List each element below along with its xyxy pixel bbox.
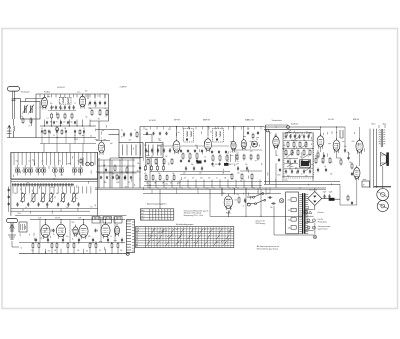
svg-text:1k: 1k (110, 236, 112, 238)
wire (344, 127, 346, 148)
jack J2 (287, 126, 290, 129)
resistor Rb5 (73, 242, 75, 249)
wire drop (260, 127, 262, 130)
capacitor in T2 (186, 138, 188, 141)
resistor R7 (91, 109, 93, 116)
rail (11, 208, 98, 210)
trimmer T7 (59, 165, 64, 176)
capacitor Cb6 (121, 238, 123, 243)
resistor Ri1 (322, 157, 324, 164)
capacitor Cy5 (218, 162, 220, 165)
capacitor Ct2 (194, 149, 196, 153)
rail (284, 140, 313, 142)
svg-text:25n: 25n (245, 164, 248, 166)
capacitor Cy1 (188, 159, 190, 162)
wire (155, 180, 157, 189)
main ground bus (95, 187, 326, 189)
wire (339, 184, 341, 205)
wire (99, 94, 101, 98)
wire (36, 137, 96, 139)
resistor Rt3 (257, 154, 259, 161)
coil box LB (19, 222, 27, 232)
resistor R11a (114, 164, 116, 171)
wire (235, 154, 237, 162)
wire (342, 130, 344, 138)
IF transformer T2 (184, 129, 194, 143)
wire (273, 206, 275, 235)
svg-text:3n: 3n (168, 129, 170, 131)
output transformer T4 (379, 125, 385, 147)
module box (103, 217, 112, 224)
tube (273, 134, 279, 149)
wire (73, 249, 75, 254)
wire drop (169, 127, 171, 130)
capacitor Cr1 (351, 201, 353, 205)
svg-text:100: 100 (270, 207, 273, 209)
wire (117, 249, 119, 254)
wire (382, 166, 384, 189)
svg-text:25n: 25n (55, 127, 57, 129)
wire (336, 151, 338, 158)
resistor Re1 (219, 154, 221, 161)
capacitor Cf1 (291, 169, 293, 174)
wire (287, 133, 289, 137)
tube (173, 139, 180, 155)
resistor Rb9 (117, 242, 119, 249)
wire (320, 127, 322, 136)
coil (215, 131, 218, 136)
wire (87, 94, 89, 99)
resistor Rb4 (67, 242, 69, 249)
wire (25, 98, 44, 100)
svg-text:Ua V: Ua V (141, 213, 144, 215)
wire (219, 180, 221, 189)
capacitor Ce3 (298, 134, 300, 139)
resistor Rx0 (44, 129, 46, 135)
wire (98, 158, 100, 188)
rail (96, 171, 140, 173)
capacitor Cx4 (74, 130, 76, 134)
svg-text:10k: 10k (137, 163, 140, 165)
resistor R48 (238, 196, 240, 203)
wire (105, 249, 107, 254)
wire (187, 180, 189, 189)
svg-text:70p: 70p (347, 152, 349, 154)
wire (110, 157, 140, 159)
capacitor C4 (55, 105, 57, 110)
resistor Rt2 (250, 154, 252, 161)
ratio det box (228, 152, 238, 164)
svg-text:gegen Chassis: gegen Chassis (318, 229, 328, 231)
capacitor Cm4 (124, 176, 126, 180)
capacitor Cb0 (35, 238, 37, 243)
resistor R5 (64, 113, 66, 120)
wire (335, 198, 341, 200)
AF cluster dashed box (284, 133, 314, 178)
wire (82, 120, 84, 127)
wire (147, 180, 149, 189)
wire (207, 127, 209, 137)
wire (7, 137, 36, 139)
svg-text:5n: 5n (216, 178, 218, 180)
svg-text:Heizwicklung: Heizwicklung (318, 221, 327, 223)
wire (359, 152, 361, 166)
svg-text:50: 50 (53, 234, 55, 236)
resistor Rb0 (32, 242, 34, 249)
resistor Rc0 (147, 158, 149, 165)
svg-text:25n: 25n (120, 250, 123, 252)
variable capacitor C1 (23, 105, 29, 114)
svg-text:100: 100 (349, 162, 352, 164)
wire drop (215, 127, 217, 130)
potentiometer block (300, 160, 311, 167)
resistor Rw1 (252, 133, 254, 140)
capacitor Cd0 (185, 166, 187, 171)
tube (205, 137, 212, 153)
resistor Rd0 (182, 152, 184, 159)
wire (89, 249, 91, 254)
rectifier bridge GR1 (308, 192, 322, 206)
tube (317, 134, 324, 149)
resistor Ry2 (159, 174, 161, 181)
capacitor Cl2 (8, 202, 10, 206)
svg-text:Spannungsangaben: Spannungsangaben (147, 204, 167, 206)
svg-text:B250 C100: B250 C100 (309, 190, 317, 192)
resistor Rh0 (285, 149, 287, 156)
wire (62, 242, 64, 244)
osc box 1 (119, 143, 143, 158)
rail (264, 180, 340, 182)
svg-text:Teleskopant.: Teleskopant. (21, 91, 31, 94)
secondary wire (306, 209, 314, 211)
svg-text:EABC 80: EABC 80 (245, 119, 254, 122)
svg-text:3n: 3n (156, 163, 158, 165)
wire (340, 137, 343, 139)
wire (233, 127, 235, 140)
wire (221, 189, 223, 193)
wire (245, 188, 247, 198)
rail extension (98, 215, 127, 217)
svg-text:220: 220 (250, 151, 252, 153)
node K (56, 128, 59, 131)
wire (105, 220, 107, 224)
coil (190, 131, 193, 136)
wire (227, 211, 229, 216)
svg-text:50: 50 (256, 139, 258, 141)
wire (74, 134, 76, 144)
secondary wire (306, 230, 314, 232)
wire (98, 159, 135, 161)
capacitor Cc3 (163, 148, 165, 153)
tube (79, 94, 85, 109)
wire (59, 120, 61, 127)
wire (314, 223, 316, 236)
svg-text:100: 100 (295, 141, 297, 143)
wire (47, 242, 49, 244)
svg-text:2k2: 2k2 (158, 173, 161, 175)
resistor Rc2 (163, 158, 165, 165)
node ring (247, 203, 250, 206)
coil (219, 131, 222, 136)
wire (230, 154, 232, 162)
capacitor C53 (268, 196, 273, 198)
voltage table (140, 204, 174, 221)
rail (48, 110, 76, 112)
svg-text:220: 220 (288, 200, 291, 202)
rail (284, 168, 313, 170)
choke solid (329, 198, 335, 201)
resistor Rb6 (89, 242, 91, 249)
resistor Rf2 (251, 173, 253, 180)
rail (284, 148, 313, 150)
wire (171, 180, 173, 189)
trimmer T5 (41, 165, 46, 176)
capacitor C7 (68, 105, 70, 110)
wire (98, 165, 135, 167)
svg-text:10k: 10k (59, 161, 62, 163)
svg-text:70p: 70p (16, 161, 19, 163)
wire drop (241, 127, 243, 130)
wire (96, 129, 119, 131)
svg-text:25n: 25n (293, 149, 296, 151)
wire (260, 189, 262, 216)
resistor Rg2 (299, 141, 301, 148)
resistor R6 (71, 113, 73, 120)
pot arrow (305, 167, 311, 171)
adjustable coil L5 (49, 192, 55, 203)
wire (32, 249, 34, 254)
wire (209, 199, 211, 216)
svg-text:8µF: 8µF (110, 143, 113, 145)
jack J1 (266, 129, 269, 132)
power transformer T5 (299, 193, 308, 234)
svg-text:0,3: 0,3 (184, 178, 186, 180)
tube (41, 95, 47, 109)
svg-text:10k: 10k (112, 174, 115, 176)
capacitor Cc4 (169, 148, 171, 153)
rail (150, 171, 230, 173)
secondary wire (306, 222, 314, 224)
trimmer T1 (15, 165, 20, 176)
capacitor Cf2 (297, 169, 299, 174)
svg-text:V: V (313, 228, 314, 230)
svg-text:0,3: 0,3 (146, 183, 148, 185)
svg-text:EF 89: EF 89 (174, 120, 180, 122)
wire (179, 180, 181, 189)
wire (13, 131, 15, 138)
wire (356, 184, 358, 205)
wire (41, 134, 43, 144)
long vertical wire (373, 129, 375, 188)
svg-text:3n: 3n (331, 162, 333, 164)
svg-text:10k: 10k (149, 185, 151, 187)
svg-text:0,1: 0,1 (47, 118, 49, 120)
wire (149, 158, 151, 189)
wire drop (195, 127, 197, 130)
rail (88, 107, 108, 109)
wire (12, 246, 19, 248)
svg-text:47n: 47n (49, 201, 51, 203)
svg-text:127: 127 (288, 210, 291, 212)
capacitor Cu2 (225, 150, 227, 154)
pilot lamp LA1 (279, 199, 283, 203)
resistor Ri0 (315, 157, 317, 164)
pot arrow (293, 137, 299, 141)
wire (340, 204, 357, 206)
wire (151, 135, 153, 143)
svg-text:1k: 1k (105, 108, 107, 110)
capacitor Cv3 (308, 160, 310, 163)
capacitor Cs1 (53, 121, 55, 124)
capacitor C13 (123, 132, 125, 137)
capacitor Ck1 (323, 154, 325, 159)
adjustable coil L2 (20, 192, 26, 203)
capacitor Cd4 (246, 166, 248, 171)
IF transformer T1 (60, 97, 72, 104)
capacitor C14b (139, 166, 141, 171)
capacitor Cy0 (180, 159, 182, 162)
resistor Ri2 (329, 157, 331, 164)
wire stubs litter (14, 97, 367, 254)
long vertical wire (369, 129, 371, 188)
svg-text:gemessen bei: gemessen bei (256, 221, 266, 223)
svg-text:Gleichspannungen: Gleichspannungen (318, 226, 331, 228)
capacitor Cw6 (257, 131, 259, 135)
osc coil wire (131, 145, 133, 156)
capacitor Cx0 (41, 130, 43, 134)
switch contact bus hatched (12, 183, 74, 186)
resistor Rh1 (291, 149, 293, 156)
svg-text:3n: 3n (336, 132, 338, 134)
resistor Rx2 (79, 129, 81, 135)
wire (314, 188, 316, 192)
svg-text:220: 220 (294, 136, 296, 138)
wire (227, 180, 229, 189)
capacitor Ct3 (201, 149, 203, 153)
adjustable coil L6 (60, 192, 66, 203)
svg-text:10k: 10k (244, 144, 246, 146)
wire (243, 127, 245, 138)
resistor R10 (136, 131, 138, 138)
svg-text:5n: 5n (78, 161, 80, 163)
wire (83, 249, 85, 254)
capacitor Cy4 (211, 162, 213, 165)
resistor Rj (351, 163, 353, 170)
svg-text:8µF: 8µF (158, 139, 161, 141)
wire (73, 94, 75, 98)
svg-text:5n: 5n (276, 155, 278, 157)
AVC rail (144, 181, 262, 183)
capacitor Ck2 (351, 172, 353, 176)
resistor Rd1 (189, 152, 191, 159)
earth antenna arrow (7, 125, 12, 137)
wire (55, 94, 57, 98)
wire (8, 186, 10, 212)
svg-text:0,3: 0,3 (324, 166, 326, 168)
coil (62, 98, 65, 103)
capacitor C11 (99, 101, 101, 106)
capacitor Cm2 (112, 176, 114, 180)
pot arrow (285, 130, 291, 134)
wire (121, 242, 123, 244)
wire (60, 249, 62, 254)
antenna A1 (8, 87, 20, 126)
capacitor Cz1 (278, 158, 280, 162)
wire drop (221, 127, 223, 130)
capacitor Ct0 (180, 149, 182, 153)
wire (275, 163, 277, 188)
tube (333, 138, 340, 153)
svg-text:0,3: 0,3 (40, 107, 42, 109)
wire (98, 172, 135, 174)
long vertical wire (376, 129, 378, 188)
wire (35, 126, 37, 138)
trimmer T2 (23, 165, 28, 176)
wire (64, 94, 66, 98)
top rail AF (264, 126, 345, 128)
capacitor Cg1 (325, 168, 327, 173)
svg-text:220: 220 (223, 193, 225, 195)
wire drop (202, 127, 204, 130)
wire (67, 249, 69, 254)
svg-text:ECH 81: ECH 81 (149, 120, 156, 122)
capacitor C6 (64, 105, 66, 110)
wire (221, 188, 223, 196)
svg-text:10k: 10k (89, 108, 92, 110)
svg-text:370 ZF: 370 ZF (55, 217, 60, 219)
svg-text:3n: 3n (322, 161, 324, 163)
svg-text:5n: 5n (169, 151, 171, 153)
svg-text:47n: 47n (98, 119, 101, 121)
resistor R2 (30, 117, 32, 124)
wire drop (150, 127, 152, 130)
capacitor C17 (37, 202, 39, 207)
rail (11, 210, 90, 212)
svg-text:10k: 10k (344, 146, 347, 148)
wire (60, 220, 62, 224)
osc coil wire (140, 145, 142, 156)
svg-text:47n: 47n (66, 236, 69, 238)
resistor Rb7 (95, 242, 97, 249)
resistor Rh3 (303, 149, 305, 156)
wire (82, 144, 84, 153)
osc coil wire (148, 145, 150, 156)
wire (76, 120, 78, 127)
wire (35, 242, 37, 244)
wire (359, 127, 361, 140)
wire (289, 158, 291, 170)
resistor R1 (22, 117, 24, 124)
wire (309, 133, 311, 137)
svg-text:47n: 47n (215, 164, 218, 166)
resistor Rg1 (293, 141, 295, 148)
tube (224, 194, 232, 210)
rail (180, 174, 232, 176)
svg-text:0,3: 0,3 (269, 133, 271, 135)
capacitor Cf4 (309, 169, 311, 174)
capacitor C56 (328, 194, 330, 199)
osc box 2 (146, 143, 164, 158)
svg-text:3n: 3n (300, 157, 302, 159)
capacitor Cy3 (204, 159, 206, 162)
selector tap 2 (291, 208, 296, 212)
resistor Rk2 (340, 159, 342, 166)
capacitor Cd3 (237, 166, 239, 171)
svg-text:Röhre: Röhre (141, 210, 145, 212)
svg-text:47n: 47n (85, 91, 88, 93)
osc coil wire (160, 145, 162, 156)
wire (307, 206, 309, 209)
